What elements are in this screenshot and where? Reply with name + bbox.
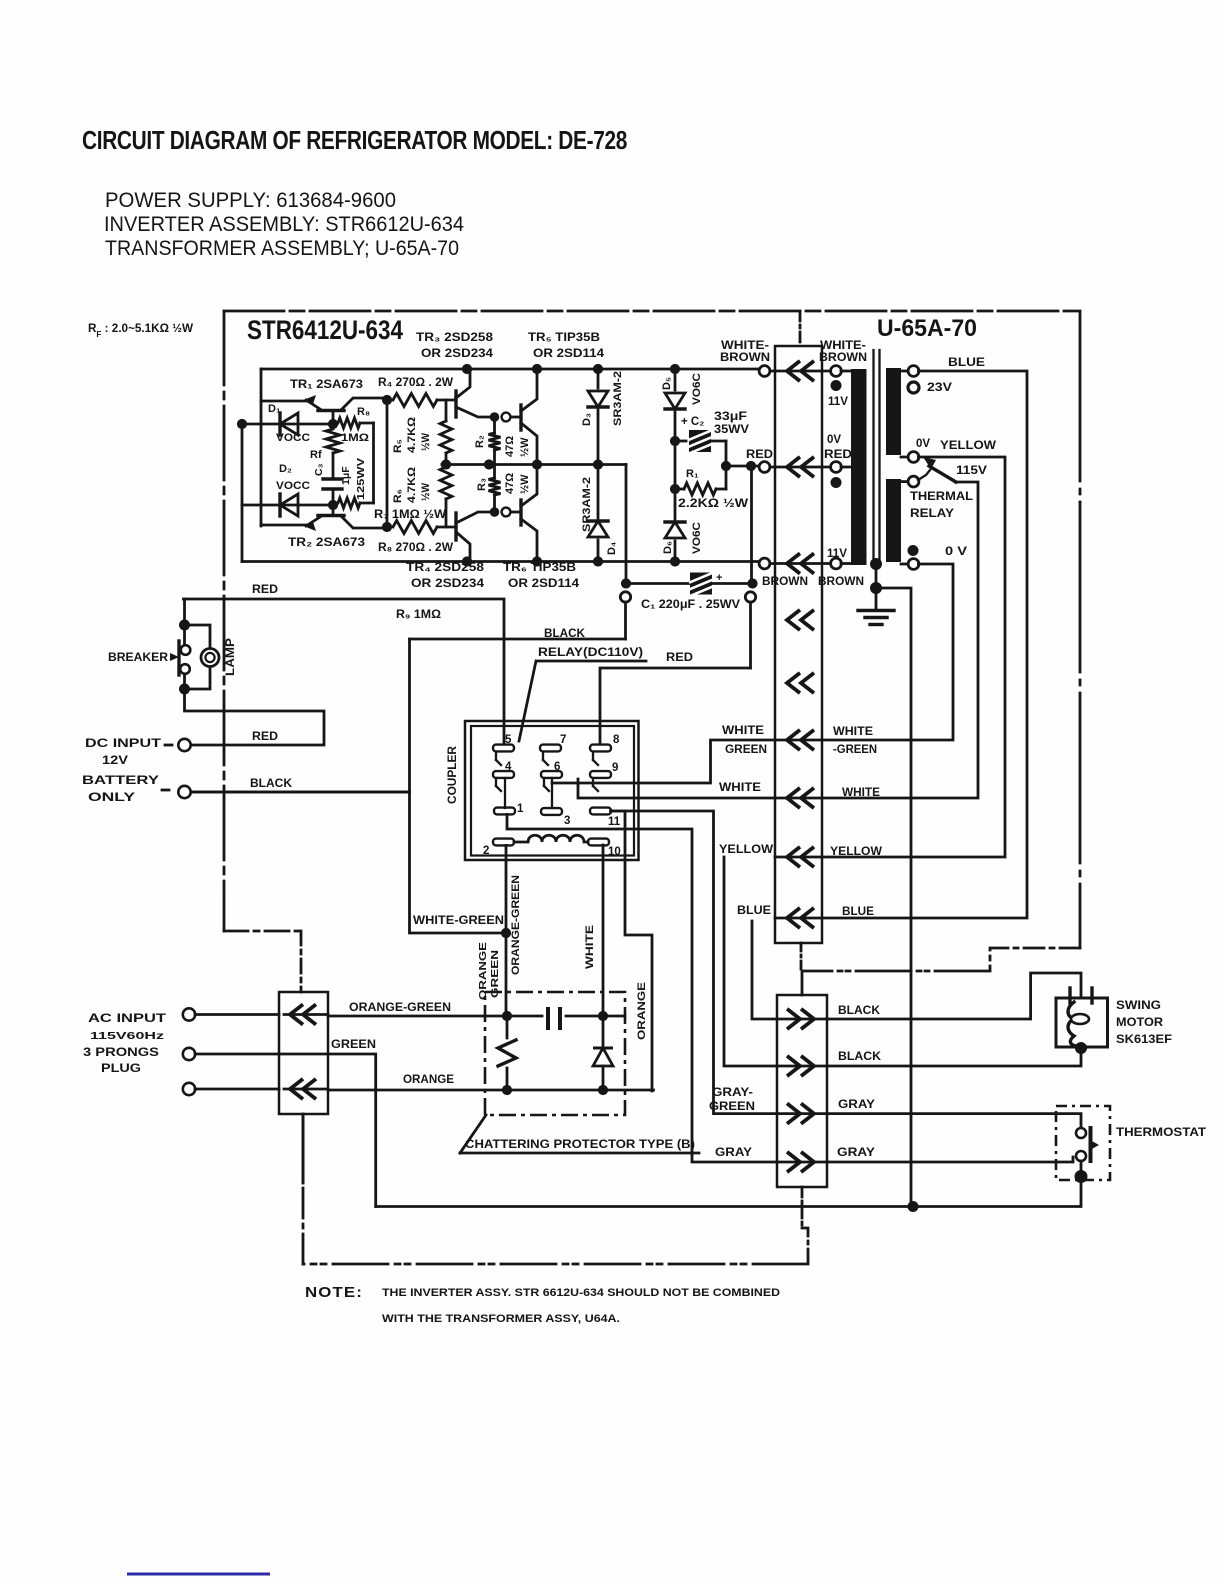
svg-text:C₃: C₃ <box>313 463 325 476</box>
svg-text:4.7KΩ: 4.7KΩ <box>406 467 418 503</box>
svg-text:BLUE: BLUE <box>842 906 874 918</box>
svg-text:11: 11 <box>608 816 621 828</box>
svg-text:11V: 11V <box>828 396 848 408</box>
svg-text:TR₅ TIP35B: TR₅ TIP35B <box>528 332 600 344</box>
svg-text:R₄ 270Ω . 2W: R₄ 270Ω . 2W <box>378 375 454 389</box>
svg-text:WHITE: WHITE <box>719 782 761 794</box>
svg-text:BROWN: BROWN <box>818 576 864 588</box>
svg-text:VO6C: VO6C <box>691 373 703 405</box>
svg-text:WHITE: WHITE <box>833 726 873 738</box>
svg-text:Rf: Rf <box>310 449 322 461</box>
svg-text:R₈: R₈ <box>357 406 370 418</box>
svg-text:OR 2SD114: OR 2SD114 <box>508 578 580 590</box>
svg-text:-GREEN: -GREEN <box>833 744 877 756</box>
svg-text:R₃: R₃ <box>476 478 488 491</box>
svg-text:C₁ 220μF . 25WV: C₁ 220μF . 25WV <box>641 599 740 611</box>
svg-text:TR₁ 2SA673: TR₁ 2SA673 <box>290 377 363 391</box>
svg-text:AC INPUT: AC INPUT <box>88 1013 166 1025</box>
svg-text:RED: RED <box>252 584 278 596</box>
svg-text:TR₂ 2SA673: TR₂ 2SA673 <box>288 535 365 549</box>
svg-text:D₁: D₁ <box>268 403 281 415</box>
svg-text:RED: RED <box>252 731 278 743</box>
svg-text:OR 2SD234: OR 2SD234 <box>411 578 485 590</box>
svg-text:BREAKER: BREAKER <box>108 652 169 664</box>
svg-text:RED: RED <box>824 449 852 461</box>
svg-text:4: 4 <box>505 761 512 773</box>
svg-text:D₃: D₃ <box>581 413 593 426</box>
svg-text:BLUE: BLUE <box>737 905 771 917</box>
svg-text:D₂: D₂ <box>279 463 292 475</box>
svg-text:R₂: R₂ <box>474 435 486 448</box>
svg-text:+: + <box>716 572 722 584</box>
svg-text:GRAY: GRAY <box>837 1147 875 1159</box>
svg-text:BLACK: BLACK <box>250 778 293 790</box>
svg-text:BATTERY: BATTERY <box>82 775 159 787</box>
svg-text:R₉ 1MΩ: R₉ 1MΩ <box>396 609 441 621</box>
svg-text:½W: ½W <box>519 474 531 494</box>
svg-text:TRANSFORMER ASSEMBLY; U-65A-70: TRANSFORMER ASSEMBLY; U-65A-70 <box>105 237 459 260</box>
svg-text:LAMP: LAMP <box>225 638 237 676</box>
svg-text:BLACK: BLACK <box>838 1005 881 1017</box>
svg-text:47Ω: 47Ω <box>504 436 516 457</box>
svg-text:U-65A-70: U-65A-70 <box>877 315 977 342</box>
svg-text:TR₄ 2SD258: TR₄ 2SD258 <box>406 562 485 574</box>
svg-text:BROWN: BROWN <box>762 576 808 588</box>
svg-text:0 V: 0 V <box>945 546 967 558</box>
svg-text:GREEN: GREEN <box>709 1101 755 1113</box>
svg-text:INVERTER ASSEMBLY: STR6612U-63: INVERTER ASSEMBLY: STR6612U-634 <box>104 213 464 236</box>
svg-text:10: 10 <box>608 846 621 858</box>
svg-text:RELAY(DC110V): RELAY(DC110V) <box>538 647 643 659</box>
svg-text:ORANGE: ORANGE <box>403 1074 454 1086</box>
svg-text:35WV: 35WV <box>714 424 749 436</box>
svg-text:5: 5 <box>505 734 512 746</box>
svg-text:4.7KΩ: 4.7KΩ <box>406 417 418 453</box>
svg-text:VOCC: VOCC <box>276 480 310 492</box>
svg-text:12V: 12V <box>102 755 128 767</box>
svg-text:SR3AM-2: SR3AM-2 <box>612 371 624 426</box>
svg-text:OR 2SD114: OR 2SD114 <box>533 348 605 360</box>
svg-text:115V: 115V <box>956 465 987 477</box>
svg-text:0V: 0V <box>827 434 841 446</box>
svg-text:DC INPUT: DC INPUT <box>85 738 161 750</box>
svg-text:R₈ 270Ω . 2W: R₈ 270Ω . 2W <box>378 540 454 554</box>
svg-text:7: 7 <box>560 734 566 746</box>
svg-text:STR6412U-634: STR6412U-634 <box>247 315 403 345</box>
svg-text:NOTE:: NOTE: <box>305 1284 363 1301</box>
svg-text:BLUE: BLUE <box>948 355 985 369</box>
svg-text:33μF: 33μF <box>714 411 747 423</box>
svg-text:RED: RED <box>746 449 773 461</box>
svg-text:BLACK: BLACK <box>838 1051 882 1063</box>
svg-text:1: 1 <box>517 803 524 815</box>
svg-text:THE INVERTER ASSY. STR 6612U-6: THE INVERTER ASSY. STR 6612U-634 SHOULD … <box>382 1287 780 1299</box>
svg-text:R₆: R₆ <box>392 489 404 503</box>
svg-text:WHITE-GREEN: WHITE-GREEN <box>413 915 504 927</box>
svg-text:1MΩ: 1MΩ <box>341 432 369 444</box>
svg-text:½W: ½W <box>420 482 432 501</box>
svg-text:GREEN: GREEN <box>725 744 767 756</box>
svg-text:½W: ½W <box>420 432 432 451</box>
svg-text:BROWN: BROWN <box>720 352 770 364</box>
svg-text:D₄: D₄ <box>606 542 618 555</box>
svg-text:0V: 0V <box>916 438 930 450</box>
svg-text:MOTOR: MOTOR <box>1116 1017 1164 1029</box>
svg-text:GRAY-: GRAY- <box>712 1087 753 1099</box>
svg-text:POWER SUPPLY: 613684-9600: POWER SUPPLY: 613684-9600 <box>105 189 396 212</box>
svg-text:½W: ½W <box>519 437 531 457</box>
svg-text:WHITE: WHITE <box>722 725 764 737</box>
svg-text:CHATTERING PROTECTOR TYPE (B): CHATTERING PROTECTOR TYPE (B) <box>465 1139 695 1151</box>
svg-text:125WV: 125WV <box>355 458 367 500</box>
svg-text:THERMOSTAT: THERMOSTAT <box>1116 1127 1206 1139</box>
svg-text:+ C₂: + C₂ <box>681 416 704 428</box>
svg-text:OR 2SD234: OR 2SD234 <box>421 348 494 360</box>
svg-text:ORANGE-GREEN: ORANGE-GREEN <box>349 1002 451 1014</box>
svg-text:3: 3 <box>564 815 570 827</box>
svg-text:R₇ 1MΩ ½W: R₇ 1MΩ ½W <box>374 509 446 521</box>
svg-text:PLUG: PLUG <box>101 1063 141 1075</box>
svg-text:D₆: D₆ <box>662 541 674 554</box>
svg-text:115V60Hz: 115V60Hz <box>90 1030 164 1042</box>
svg-text:2: 2 <box>483 845 489 857</box>
svg-text:R₁: R₁ <box>686 468 699 480</box>
svg-text:ORANGE-GREEN: ORANGE-GREEN <box>510 875 522 975</box>
svg-text:6: 6 <box>554 761 560 773</box>
svg-text:SWING: SWING <box>1116 1000 1161 1012</box>
svg-text:RELAY: RELAY <box>910 508 954 520</box>
svg-text:GRAY: GRAY <box>838 1099 875 1111</box>
svg-text:GREEN: GREEN <box>331 1039 376 1051</box>
svg-text:WHITE-: WHITE- <box>820 340 866 352</box>
svg-text:ONLY: ONLY <box>88 792 135 804</box>
svg-text:2.2KΩ ½W: 2.2KΩ ½W <box>678 498 748 510</box>
svg-text:BLACK: BLACK <box>544 628 586 640</box>
svg-text:1μF: 1μF <box>340 466 352 485</box>
svg-text:CIRCUIT DIAGRAM OF REFRIGERATO: CIRCUIT DIAGRAM OF REFRIGERATOR MODEL: D… <box>82 127 627 155</box>
svg-text:8: 8 <box>613 734 620 746</box>
svg-text:THERMAL: THERMAL <box>910 491 973 503</box>
svg-text:YELLOW: YELLOW <box>719 844 773 856</box>
svg-text:RED: RED <box>666 652 693 664</box>
svg-text:47Ω: 47Ω <box>504 473 516 494</box>
svg-text:ORANGE: ORANGE <box>636 982 648 1040</box>
svg-text:D₅: D₅ <box>661 377 673 390</box>
svg-text:23V: 23V <box>927 382 952 394</box>
svg-text:YELLOW: YELLOW <box>940 438 997 452</box>
svg-text:R₅: R₅ <box>392 439 404 453</box>
svg-text:VOCC: VOCC <box>276 432 310 444</box>
svg-text:TR₃ 2SD258: TR₃ 2SD258 <box>416 332 494 344</box>
svg-text:9: 9 <box>612 762 618 774</box>
svg-text:COUPLER: COUPLER <box>447 745 459 804</box>
svg-text:WITH THE TRANSFORMER ASSY, U64: WITH THE TRANSFORMER ASSY, U64A. <box>382 1313 620 1325</box>
svg-text:WHITE: WHITE <box>584 925 596 969</box>
svg-text:SK613EF: SK613EF <box>1116 1034 1172 1046</box>
svg-text:VO6C: VO6C <box>691 522 703 554</box>
svg-text:BROWN: BROWN <box>819 352 867 364</box>
svg-text:GRAY: GRAY <box>715 1147 752 1159</box>
svg-text:3 PRONGS: 3 PRONGS <box>83 1047 159 1059</box>
svg-text:SR3AM-2: SR3AM-2 <box>581 477 593 532</box>
svg-text:WHITE-: WHITE- <box>721 340 769 352</box>
